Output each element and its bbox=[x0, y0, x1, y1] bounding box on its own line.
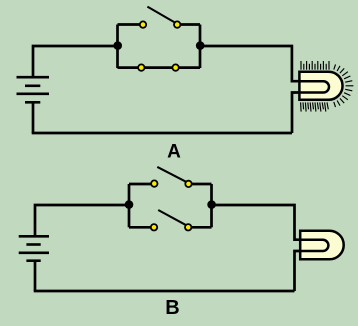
wire: right riser of parallel branch box, circuit B bbox=[210, 184, 213, 227]
switch S4 blade (open), circuit B bbox=[158, 210, 188, 226]
wire: bottom branch left segment to switch S4, circuit B bbox=[129, 226, 152, 229]
wire: bottom return wire of circuit A bbox=[32, 132, 292, 135]
switch S4 left terminal bbox=[151, 224, 157, 230]
wire: right node to lamp upper stub, circuit A bbox=[200, 46, 300, 81]
switch S1 blade (open), circuit A bbox=[147, 7, 176, 24]
battery B2 long plate (top) bbox=[19, 235, 49, 238]
lamp DS2 bulb envelope (unlit), circuit B bbox=[300, 231, 343, 260]
battery B1 short plate (bottom) bbox=[25, 101, 40, 104]
svg-text:A: A bbox=[167, 142, 181, 163]
wire: left riser of parallel branch box, circuit A bbox=[116, 25, 119, 69]
junction node right, circuit A bbox=[196, 41, 205, 50]
battery B2 short plate (bottom) bbox=[26, 259, 40, 262]
switch S2 left terminal bbox=[138, 64, 144, 70]
junction node right, circuit B bbox=[207, 200, 216, 209]
switch S4 right terminal bbox=[185, 224, 191, 230]
switch S3 blade (open), circuit B bbox=[157, 167, 188, 183]
junction node left, circuit A bbox=[113, 41, 122, 50]
wire: top branch left segment to switch S3, circuit B bbox=[129, 183, 153, 186]
battery B2 short plate bbox=[26, 243, 40, 246]
lamp DS1 filament base (inner tongue), circuit A bbox=[299, 81, 329, 92]
battery B1 long plate (top) bbox=[17, 76, 50, 79]
switch S1 right terminal bbox=[174, 21, 180, 27]
svg-text:B: B bbox=[165, 297, 179, 319]
wire: right node to lamp upper stub, circuit B bbox=[212, 205, 301, 240]
lamp DS1 glow rays bbox=[301, 61, 354, 112]
battery B2 long plate bbox=[19, 252, 49, 255]
battery B1 short plate bbox=[25, 85, 40, 88]
wire: lamp lower stub down to bottom wire, circuit B bbox=[295, 251, 301, 291]
wire: left riser of parallel branch box, circuit B bbox=[128, 184, 131, 227]
wire: right riser of parallel branch box, circuit A bbox=[199, 25, 202, 69]
junction node left, circuit B bbox=[125, 200, 134, 209]
wire: battery positive lead up and top wire to left junction, circuit B bbox=[35, 205, 129, 236]
wire: top branch right segment from switch S3, circuit B bbox=[189, 183, 212, 186]
wire: battery positive lead up and top wire to left junction, circuit A bbox=[33, 46, 118, 77]
wire: top branch left segment to switch S1, circuit A bbox=[118, 23, 143, 26]
wire: bottom return wire of circuit B bbox=[34, 290, 295, 293]
wire: top branch right segment from switch S1, circuit A bbox=[178, 23, 201, 26]
wire: battery negative lead down to bottom wire, circuit A bbox=[32, 102, 35, 133]
battery B1 long plate bbox=[17, 93, 50, 96]
lamp DS1 bulb envelope (lit), circuit A bbox=[299, 72, 342, 100]
switch S3 right terminal bbox=[185, 181, 191, 187]
switch S2 right terminal bbox=[172, 64, 178, 70]
wire: lamp lower stub down to bottom wire, circuit A bbox=[292, 93, 300, 134]
switch S1 left terminal bbox=[140, 21, 146, 27]
wire: battery negative lead down to bottom wire, circuit B bbox=[34, 261, 37, 291]
wire: bottom branch with closed switch S2, circuit A bbox=[118, 66, 201, 69]
wire: bottom branch right segment from switch S4, circuit B bbox=[189, 226, 212, 229]
switch S3 left terminal bbox=[151, 180, 157, 186]
lamp DS2 filament base (inner tongue), circuit B bbox=[300, 240, 328, 251]
